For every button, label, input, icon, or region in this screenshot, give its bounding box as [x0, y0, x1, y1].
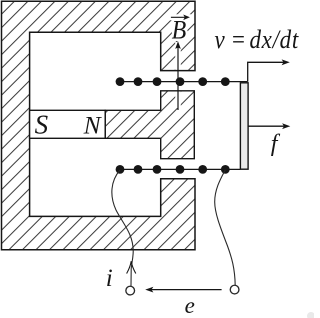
center pole hatch fill — [105, 91, 194, 159]
svg-text:B: B — [172, 17, 187, 45]
magnet yoke outline — [2, 1, 196, 250]
voltage arrow e — [150, 289, 222, 291]
lower coil line — [120, 168, 240, 170]
current arrowhead i — [127, 261, 136, 273]
svg-text:N: N — [83, 111, 103, 140]
permanent magnet box — [30, 110, 106, 138]
right terminal — [230, 285, 239, 294]
svg-text:e: e — [185, 293, 195, 318]
force arrow f — [248, 125, 285, 127]
halo for B vector arrow — [170, 14, 192, 20]
vector arrow over B — [171, 16, 187, 18]
left terminal — [126, 286, 135, 295]
upper coil turn dots — [116, 77, 230, 86]
magnet yoke hatch fill — [2, 1, 196, 250]
corner smudge — [307, 312, 315, 318]
center pole outline — [105, 91, 194, 159]
coil former plate — [240, 83, 248, 169]
velocity arrow v — [248, 62, 285, 81]
svg-text:S: S — [35, 110, 49, 140]
svg-text:f: f — [271, 131, 281, 157]
left lead wire — [112, 170, 133, 286]
B field arrow — [177, 47, 179, 110]
halo for B field arrow — [175, 42, 181, 108]
right lead wire — [215, 170, 236, 286]
svg-text:i: i — [106, 265, 113, 292]
lower coil turn dots — [116, 165, 230, 174]
upper coil line — [120, 81, 248, 83]
svg-text:v=dx/dt: v=dx/dt — [215, 26, 300, 55]
